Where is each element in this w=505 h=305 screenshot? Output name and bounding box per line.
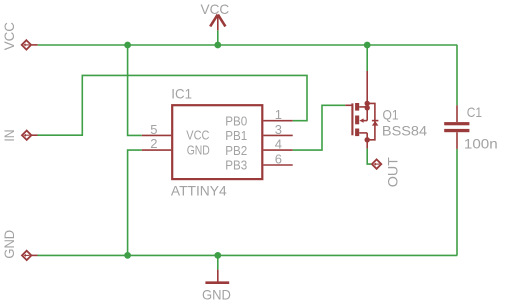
svg-text:5: 5 <box>150 122 157 137</box>
svg-text:GND: GND <box>202 286 231 302</box>
svg-text:IN: IN <box>1 129 17 141</box>
svg-text:VCC: VCC <box>201 1 230 17</box>
svg-text:PB3: PB3 <box>225 158 247 173</box>
svg-text:VCC: VCC <box>186 128 209 143</box>
svg-text:1: 1 <box>275 107 282 122</box>
svg-text:GND: GND <box>187 142 210 157</box>
svg-text:PB2: PB2 <box>225 143 247 158</box>
svg-text:BSS84: BSS84 <box>382 122 427 138</box>
svg-text:PB0: PB0 <box>225 113 247 128</box>
svg-text:Q1: Q1 <box>383 107 399 123</box>
svg-text:GND: GND <box>1 230 17 259</box>
svg-text:6: 6 <box>275 151 282 166</box>
svg-text:C1: C1 <box>467 104 482 120</box>
svg-text:ATTINY4: ATTINY4 <box>171 183 227 199</box>
svg-text:2: 2 <box>150 136 157 151</box>
svg-text:4: 4 <box>275 137 282 152</box>
svg-text:IC1: IC1 <box>171 85 192 101</box>
svg-text:OUT: OUT <box>385 157 401 188</box>
svg-text:VCC: VCC <box>1 22 17 50</box>
svg-text:100n: 100n <box>464 136 498 152</box>
svg-text:3: 3 <box>275 122 282 137</box>
svg-text:PB1: PB1 <box>225 128 247 143</box>
